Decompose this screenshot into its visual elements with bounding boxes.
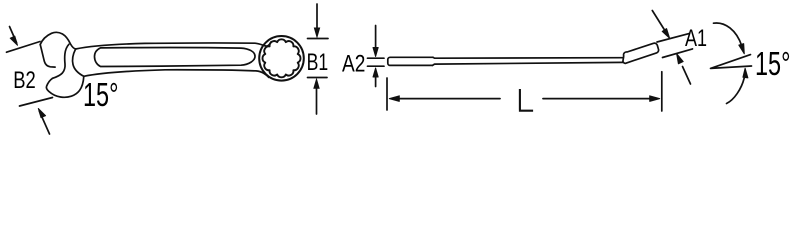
- wrench open-end head outer top (horn tip to hump to neck cusp): [40, 32, 75, 49]
- B1 lower arrow: [316, 86, 318, 114]
- wedge lower curved arrow: [727, 78, 745, 104]
- svg-text:B1: B1: [307, 48, 329, 76]
- 15deg wedge: [711, 55, 752, 69]
- mouth upper inner face: [40, 45, 55, 68]
- ring outer circle: [259, 36, 304, 81]
- shank face oval: [94, 48, 255, 67]
- A1 lower arrow: [683, 67, 691, 85]
- ring 12-point bore: [262, 39, 300, 77]
- svg-text:A1: A1: [685, 25, 707, 51]
- shank top edge with fillet into ring: [76, 42, 272, 49]
- wedge upper curved arrow: [714, 23, 742, 46]
- head neck parting line: [73, 49, 84, 76]
- B1 arrows/ticks: [308, 4, 329, 114]
- A2 ticks: [368, 57, 385, 59]
- side view: ring end (angled): [623, 43, 659, 63]
- B1 upper arrow: [316, 4, 318, 31]
- A2 upper arrow: [375, 26, 377, 53]
- A1 upper tick: [657, 33, 690, 42]
- A1 upper arrow: [652, 11, 665, 32]
- mouth throat curve: [53, 44, 69, 78]
- text L (drawn): [519, 89, 533, 111]
- side view: open-end head + shank: [388, 57, 433, 65]
- A2 lower arrow: [375, 73, 377, 87]
- L extension line left: [386, 78, 388, 110]
- B2 lower arrow: [40, 112, 50, 135]
- B2 lower tick: [20, 98, 53, 107]
- svg-text:15°: 15°: [755, 46, 790, 83]
- A1 lower tick: [663, 49, 693, 58]
- L dim line left + arrow: [394, 98, 501, 100]
- B2 upper tick: [7, 42, 41, 53]
- svg-text:15°: 15°: [83, 77, 118, 114]
- shank bottom edge with fillet into ring: [84, 70, 269, 78]
- svg-text:B2: B2: [13, 65, 35, 93]
- B1 lower tick: [308, 77, 328, 79]
- B2 upper arrow: [10, 27, 17, 43]
- B1 upper tick: [308, 38, 329, 40]
- L extension line right: [661, 72, 663, 111]
- svg-text:A2: A2: [342, 49, 365, 77]
- L dim line right + arrow: [543, 98, 655, 100]
- lower horn tip and head bottom bulge: [46, 76, 83, 97]
